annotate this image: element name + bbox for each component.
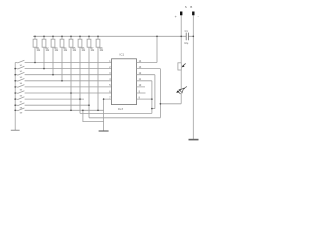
wire pin13 down (141, 69, 161, 118)
svg-text:10k: 10k (55, 50, 60, 52)
svg-text:S3: S3 (20, 77, 23, 79)
svg-text:10k: 10k (46, 50, 51, 52)
trimmer P1 (178, 63, 186, 70)
switch S7 (15, 97, 84, 100)
svg-text:B: B (190, 5, 192, 9)
LED D1 (176, 86, 187, 94)
switch S1 (15, 60, 111, 63)
wire pin12 link (152, 108, 155, 110)
svg-text:S6: S6 (20, 95, 23, 97)
node resistor-row dots (34, 62, 36, 64)
wire pin11 down (141, 81, 152, 114)
svg-text:S9: S9 (20, 113, 23, 115)
switch S5 (15, 85, 111, 88)
switch S3 (15, 72, 111, 75)
svg-text:C1: C1 (185, 30, 189, 33)
wire top supply bus (33, 35, 193, 37)
node right dots (151, 98, 153, 100)
key bus (left vertical) (14, 63, 16, 131)
battery - rail (192, 13, 194, 140)
svg-text:10k: 10k (82, 50, 87, 52)
switch S4 (15, 79, 111, 82)
wire pin12 down (141, 75, 155, 109)
wire pin7 stub down (104, 99, 112, 131)
svg-text:10k: 10k (91, 50, 96, 52)
svg-text:S2: S2 (20, 71, 23, 73)
switch S9 (15, 108, 103, 111)
resistor R8 (96, 36, 100, 110)
svg-text:S1: S1 (20, 65, 23, 67)
resistor R3 (51, 36, 55, 74)
wire pin14 to supply (141, 36, 158, 62)
capacitor C1 (186, 33, 188, 41)
resistor R6 (78, 36, 82, 113)
switch S6 (15, 91, 111, 94)
resistor R7 (87, 36, 91, 118)
IC U1 box (112, 59, 137, 105)
svg-text:10k: 10k (37, 50, 42, 52)
switch S8 (15, 103, 89, 106)
wire pin8 join (141, 98, 152, 100)
wire row9 ground jog (83, 110, 104, 121)
node key bus dots (14, 68, 16, 70)
svg-text:10k: 10k (73, 50, 78, 52)
svg-text:DL 8: DL 8 (118, 108, 124, 111)
ground left (11, 129, 20, 131)
battery + rail (180, 13, 182, 104)
svg-text:-: - (198, 14, 200, 19)
svg-text:10k: 10k (100, 50, 105, 52)
junction dots (14, 36, 194, 112)
svg-text:S7: S7 (20, 102, 23, 104)
resistor R1 (33, 36, 37, 62)
wire bottom H2 (80, 112, 152, 114)
svg-text:S: S (185, 5, 187, 9)
resistor R5 (69, 36, 73, 110)
svg-text:10k: 10k (64, 50, 69, 52)
node bus dots (34, 36, 36, 38)
resistor R4 (60, 36, 64, 81)
wire rail link (160, 103, 181, 105)
resistor R2 (42, 36, 46, 68)
wire bottom H3 (89, 117, 160, 119)
ground right (189, 139, 199, 141)
svg-text:S4: S4 (20, 83, 23, 85)
svg-text:S5: S5 (20, 89, 23, 91)
IC right pin stubs (137, 63, 146, 100)
svg-text:10µ: 10µ (184, 42, 189, 45)
battery terminal marks (181, 12, 193, 16)
svg-text:+: + (175, 14, 178, 19)
ground middle (99, 130, 109, 132)
switch S2 (15, 66, 111, 69)
svg-text:IC1: IC1 (120, 53, 125, 57)
